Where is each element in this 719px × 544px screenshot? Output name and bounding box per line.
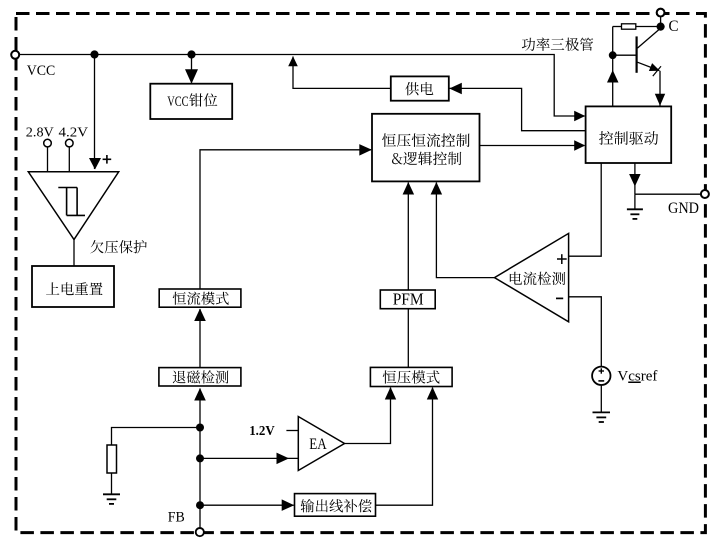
source Vcsref <box>592 367 610 385</box>
wire: PFM up into CVCC control <box>407 183 409 291</box>
wire: control-drive to supply box feed <box>450 88 587 130</box>
label 电流检测 <box>510 272 566 286</box>
block: CV/CC control and logic box <box>372 114 480 182</box>
svg-text:EA: EA <box>309 436 327 453</box>
svg-text:VCC: VCC <box>167 94 188 110</box>
wire: VCC bus from VCC pin right then down into control-drive <box>15 55 585 117</box>
node: FB junction 3 <box>196 501 204 509</box>
label 上电重置 <box>46 282 102 295</box>
wire: EA output to CV mode <box>345 388 391 444</box>
ground (Vcsref) <box>593 411 611 413</box>
wire: base drive from control-drive top <box>612 27 614 107</box>
ground (control drive) <box>627 208 643 210</box>
wire: CC-mode up to CVCC control block <box>200 150 371 289</box>
wire: 2.8V stub <box>47 147 49 172</box>
label 恒压模式 <box>383 370 440 383</box>
label 欠压保护 <box>90 240 147 253</box>
transistor Q1 base bar <box>635 36 637 72</box>
wire: supply output up into VCC bus <box>292 57 294 90</box>
block: VCC clamp box <box>150 84 232 119</box>
block: control drive box <box>586 106 672 163</box>
wire: FB to EA inverting input <box>200 457 298 459</box>
block: demagnetization detect box <box>159 368 241 386</box>
op-amp current sense comparator <box>495 233 569 321</box>
label + at UVLO input <box>103 158 112 160</box>
wire: FB junction to resistor <box>112 428 201 446</box>
terminal GND pin <box>701 190 709 198</box>
terminal FB pin <box>196 528 204 536</box>
svg-text:2.8V: 2.8V <box>26 126 54 141</box>
wire: source to ground <box>600 385 602 412</box>
wire: supply box left lead <box>293 87 391 89</box>
terminal 4.2V input <box>66 139 74 147</box>
ground (resistor) <box>103 493 120 495</box>
wire: VCC down into UVLO + input <box>94 55 96 170</box>
terminal VCC pin <box>11 51 19 59</box>
svg-text:Vcsref: Vcsref <box>617 369 657 385</box>
wire: 4.2V stub <box>68 147 70 172</box>
block: CC mode box <box>159 289 241 307</box>
node: collector junction C <box>657 23 665 31</box>
svg-text:GND: GND <box>668 200 699 217</box>
wire: line-comp output to CV mode <box>376 388 433 506</box>
wire: CVCC control output to control-drive <box>480 145 585 147</box>
wire: base resistor right lead <box>636 26 661 28</box>
wire: ground rail to GND pin <box>635 193 705 195</box>
label 输出线补偿 <box>301 499 372 512</box>
label + comparator <box>557 258 567 260</box>
wire: ground stub <box>634 194 636 209</box>
terminal 2.8V input <box>44 139 52 147</box>
wire: resistor to ground <box>111 473 113 494</box>
svg-text:FB: FB <box>168 510 185 526</box>
resistor (base) <box>622 24 636 29</box>
wire: emitter down into control-drive <box>659 71 661 106</box>
terminal C pin <box>657 9 665 17</box>
node: base-resistor junction <box>609 51 617 59</box>
op-amp UVLO comparator triangle <box>28 172 118 240</box>
hysteresis symbol inside UVLO <box>58 187 77 189</box>
svg-text:4.2V: 4.2V <box>59 126 89 141</box>
wire: 1.2V stub <box>286 430 298 432</box>
block: PFM box <box>380 290 435 309</box>
emitter tick <box>653 66 661 76</box>
op-amp EA error amplifier <box>298 417 344 471</box>
block: output line compensation box <box>295 494 376 517</box>
block: power-on reset box <box>32 266 114 307</box>
transistor Q1 base wire <box>613 54 636 56</box>
svg-text:C: C <box>669 18 679 35</box>
label 钳位 <box>189 93 217 106</box>
label 退磁检测 <box>173 370 229 383</box>
transistor Q1 emitter <box>637 62 659 70</box>
wire: UVLO output down to power-on-reset <box>73 240 75 267</box>
node: VCC junction to VCC clamp <box>187 50 195 58</box>
label 供电 <box>405 82 433 95</box>
wire: comparator output up into CVCC control <box>436 183 494 278</box>
wire: C pin stub <box>660 16 662 26</box>
wire: FB to line-compensation input <box>200 504 294 506</box>
block: supply (gongdian) box <box>391 76 449 100</box>
label 控制驱动 <box>599 131 658 145</box>
wire: CV mode to PFM <box>407 309 409 368</box>
node: VCC junction to UVLO <box>90 50 98 58</box>
label 恒流模式 <box>173 292 229 305</box>
wire: FB vertical into demag <box>199 389 201 529</box>
block: CV mode box <box>370 367 452 386</box>
resistor (FB divider) <box>107 445 117 473</box>
wire: VCC bus down into VCC clamp <box>191 55 193 83</box>
transistor Q1 collector <box>637 28 660 48</box>
svg-text:PFM: PFM <box>393 290 424 309</box>
svg-text:VCC: VCC <box>27 63 56 79</box>
wire: comparator - to Vcsref source <box>569 297 602 367</box>
node: FB junction 1 <box>196 424 204 432</box>
label 功率三极管 <box>522 38 593 52</box>
label &逻辑控制 <box>392 152 461 166</box>
label - comparator <box>556 297 563 299</box>
wire: control-drive down to comparator + <box>569 163 602 256</box>
node: FB junction 2 <box>196 454 204 462</box>
wire: demag up into CC mode <box>199 309 201 367</box>
svg-text:1.2V: 1.2V <box>249 424 275 439</box>
wire: control-drive to GND <box>634 163 636 194</box>
label 恒压恒流控制 <box>382 133 469 147</box>
wire: base resistor left lead <box>613 26 622 28</box>
